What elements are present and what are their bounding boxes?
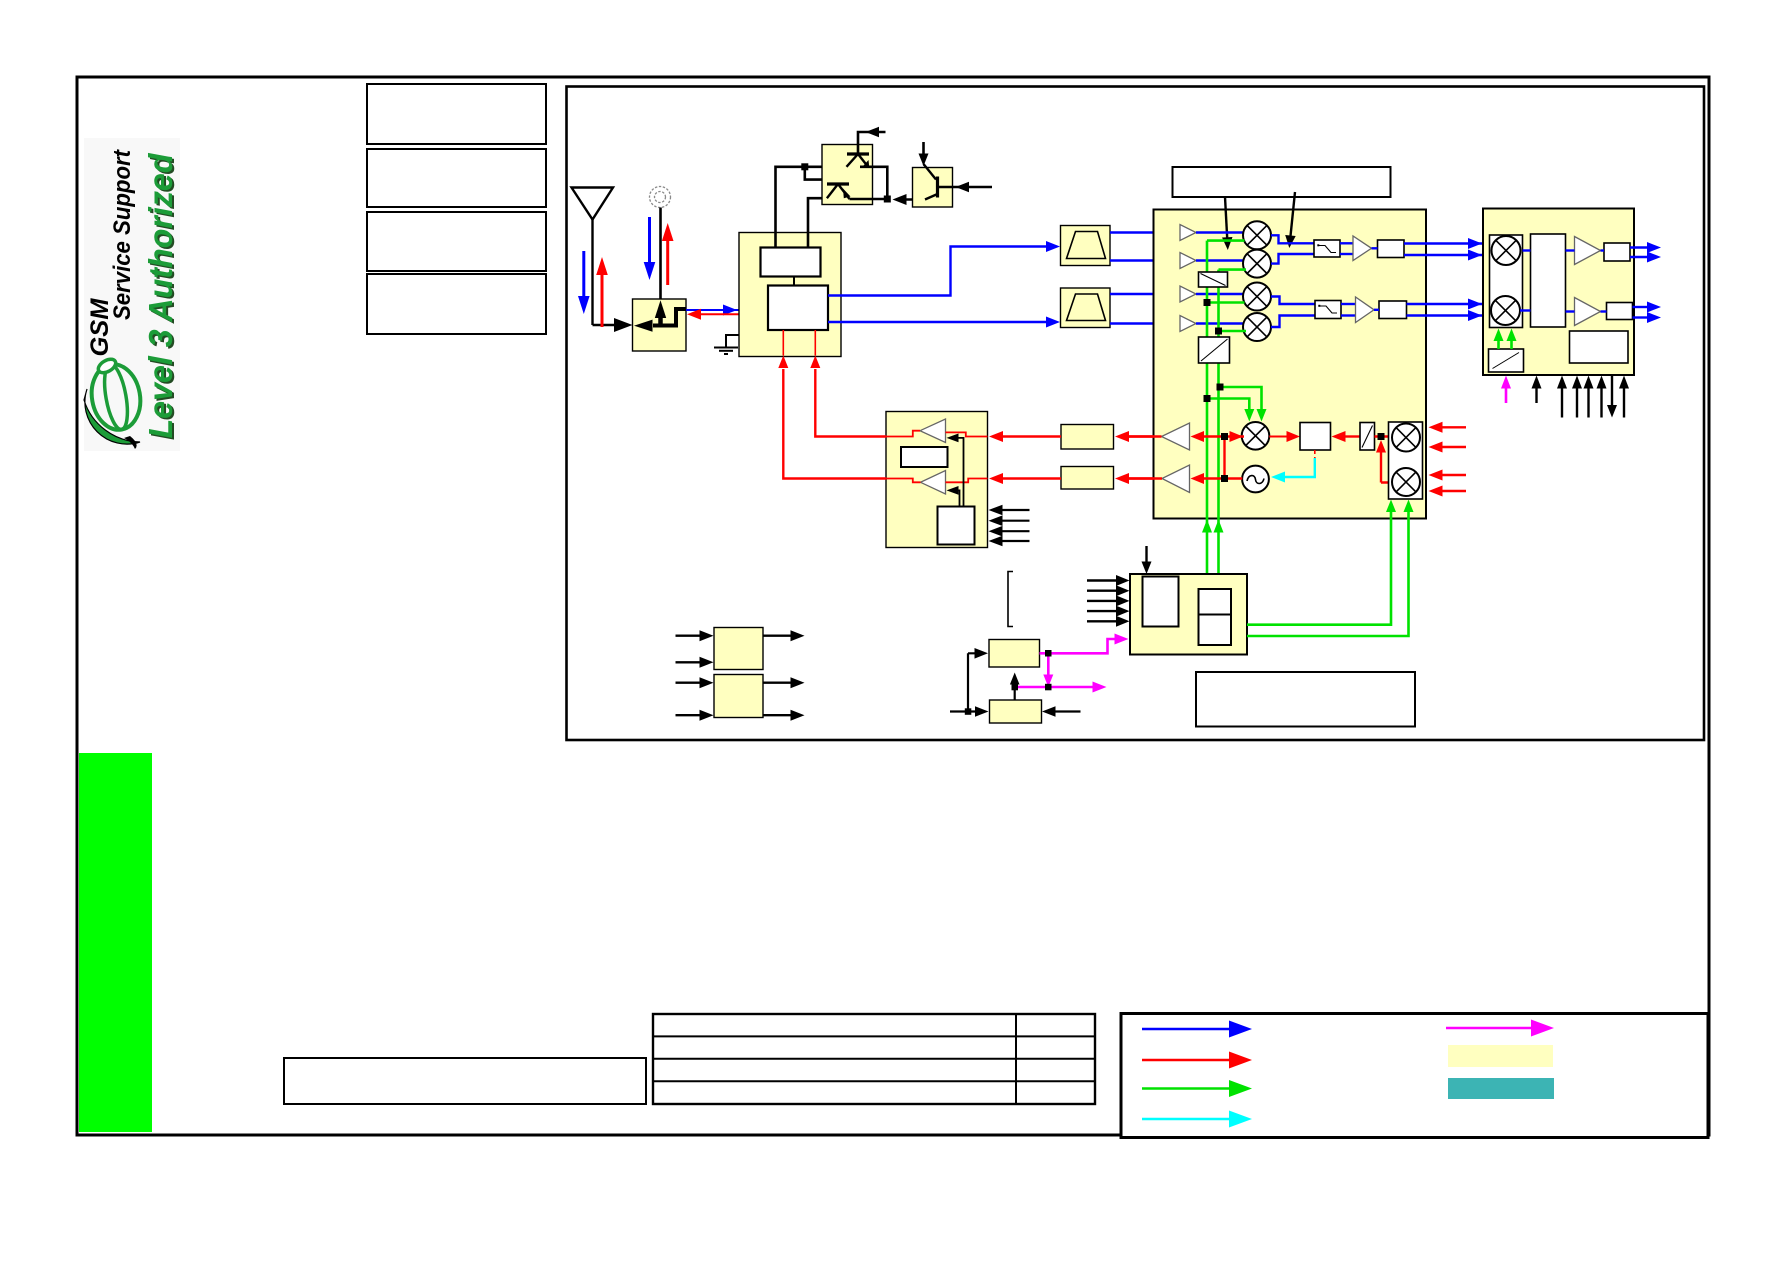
wire Q1a collector to node xyxy=(860,167,887,199)
red wire in to IF amp2 xyxy=(946,479,988,483)
gain control wire amp2 xyxy=(947,486,960,507)
LNA buffer 4 xyxy=(1180,316,1196,332)
Tx red arrow at antenna xyxy=(596,257,608,327)
title block box 2 xyxy=(367,149,546,207)
legend box xyxy=(1121,1014,1708,1138)
wire IC2 mixer2 to filter xyxy=(1520,309,1531,311)
magenta branch down xyxy=(1043,653,1053,687)
output block B2 xyxy=(1379,301,1407,319)
IC2 out block 1 xyxy=(1604,243,1630,261)
IC2 mixer upper xyxy=(1492,236,1521,265)
wire A2 to B2 xyxy=(1374,309,1379,311)
Q2 symbol xyxy=(924,164,938,200)
RX SAW filter FL1 xyxy=(1061,226,1111,266)
wire IC2 mixer1 to filter xyxy=(1523,249,1531,251)
IC2 black interface arrow 3 xyxy=(1572,376,1582,418)
wire junction to Q1b base xyxy=(805,167,839,182)
wire buffer4 to mixer4 xyxy=(1196,322,1244,324)
IC2 mixer lower xyxy=(1491,296,1520,325)
junction TX rail xyxy=(1221,433,1228,440)
wire M5 to modulator box xyxy=(1269,431,1300,442)
IC2 filter block xyxy=(1531,234,1566,327)
lowpass filter LPF1 xyxy=(1314,240,1340,257)
wire PA bias to Q1 collector rail xyxy=(776,167,847,248)
IF control input arrow 4 xyxy=(989,536,1030,547)
output block B1 xyxy=(1378,240,1405,258)
wire A4 out to SAW IF2 xyxy=(1115,473,1162,484)
wire buffer1 to mixer1 xyxy=(1196,231,1244,233)
bottom-left note rect xyxy=(284,1058,646,1104)
mixer M3 xyxy=(1243,283,1271,311)
transistor Q2 xyxy=(913,168,953,208)
synth PLL block lower xyxy=(1199,615,1232,646)
reg2 input arrow 2 xyxy=(676,710,714,721)
title block box 1 xyxy=(367,84,546,144)
IC2 black interface arrow 1 xyxy=(1532,376,1542,404)
IC2 black interface arrow 7 xyxy=(1619,376,1629,418)
junction osc feed xyxy=(965,708,972,715)
legend magenta arrow xyxy=(1446,1020,1554,1037)
arrow into osc B right xyxy=(1042,706,1081,717)
reg1 output arrow xyxy=(763,630,805,641)
switch Tx path arrow (up) xyxy=(655,300,666,325)
IF amp 2 (points left) xyxy=(921,471,946,495)
junction LO-TX B xyxy=(1217,384,1224,391)
red riser from lower TX mixer xyxy=(1376,440,1392,483)
junction magenta C xyxy=(1012,684,1019,691)
wire filter to amp1 xyxy=(1566,249,1575,251)
synth control arrow 4 xyxy=(1087,606,1130,617)
regulator box 2 xyxy=(714,675,763,718)
wire PA bias to Q1b emitter xyxy=(808,198,827,247)
LO rail arrows at IC1 bottom xyxy=(1202,520,1212,533)
VCO oscillator xyxy=(1242,466,1269,493)
LO branch to M3 xyxy=(1207,301,1245,304)
wires LPF1 to amp A1 xyxy=(1340,243,1353,254)
IC2 black interface arrow 5 xyxy=(1597,376,1607,418)
junction magenta A xyxy=(1045,650,1052,657)
wire IC1 to SAW IF1 xyxy=(1129,435,1154,437)
legend blue arrow xyxy=(1142,1021,1252,1038)
TX I/Q mixer box xyxy=(1389,422,1423,499)
wire antenna to switch xyxy=(593,318,633,332)
synth PLL block upper xyxy=(1199,589,1232,615)
TXQN input arrow xyxy=(1429,486,1467,497)
wire buffer2 to mixer2 xyxy=(1196,259,1244,261)
PA module U1 xyxy=(739,233,841,357)
label arrow to mixer 1 xyxy=(1222,197,1233,250)
RF test connector X1 xyxy=(650,187,671,208)
IF control input arrow 3 xyxy=(989,526,1030,537)
arrow into osc A xyxy=(975,648,989,659)
red riser IF to PA left xyxy=(778,330,886,479)
wire Q1b collector to node xyxy=(850,198,885,201)
TX rail red: mixer5 to amp A3 xyxy=(1202,435,1244,437)
wire SAW IF1 to IF block xyxy=(989,431,1061,442)
gain control wire amp1 xyxy=(947,434,964,507)
reg2 input arrow 1 xyxy=(676,677,714,688)
LO rail B (green vertical) xyxy=(1217,270,1220,574)
Q2 collector feed with down arrow xyxy=(919,142,929,166)
junction magenta B xyxy=(1045,684,1052,691)
IC2 amp 2 xyxy=(1575,298,1601,326)
label arrow to mixer 2 xyxy=(1285,192,1296,248)
IF control block xyxy=(938,507,975,545)
LNA buffer 2 xyxy=(1180,253,1196,269)
RXI+ line IC1 to IC2 xyxy=(1404,238,1490,249)
reg1 input arrow 2 xyxy=(676,657,714,668)
reg2 output arrow 1 xyxy=(763,677,805,688)
Rx blue arrow at antenna xyxy=(578,251,590,314)
modulator box xyxy=(1300,423,1331,451)
synthesizer block U3 xyxy=(1130,574,1247,655)
mixer M1 xyxy=(1243,221,1271,249)
black feed wire to osc A/B xyxy=(950,653,976,711)
title block box 4 xyxy=(367,274,546,334)
TX amp A4 (points left) xyxy=(1162,465,1190,493)
IF amplifier block U2 xyxy=(886,412,988,548)
red wire IF amp2 out xyxy=(886,479,921,483)
switch Rx path wire xyxy=(653,309,686,326)
synth control arrow 3 xyxy=(1087,595,1130,606)
TX mixer upper xyxy=(1392,424,1420,452)
magenta clock out line xyxy=(1015,682,1107,693)
wire switch to PA (blue) xyxy=(686,305,768,316)
PA bias block xyxy=(761,248,821,277)
junction LO-M4 xyxy=(1215,328,1222,335)
LO branch A to TX mixer xyxy=(1207,399,1254,422)
VCO rail red to amp A4 xyxy=(1202,477,1242,479)
PA amplifier block xyxy=(768,286,828,331)
synth control arrow 2 xyxy=(1087,585,1130,596)
LNA buffer 1 xyxy=(1180,225,1196,241)
IC2 blue out 1a xyxy=(1630,242,1661,253)
wire A3 out to SAW IF1 xyxy=(1115,431,1162,442)
wire FL2 outputs to IC1 xyxy=(1110,294,1180,324)
synth control arrow 1 xyxy=(1087,575,1130,586)
LO branch to M2 xyxy=(1219,268,1247,271)
IF SAW filter 1 xyxy=(1061,425,1114,450)
wire TX mixers to attenuator xyxy=(1375,435,1392,437)
wire filter to amp2 xyxy=(1566,310,1575,312)
RXI- line IC1 to IC2 xyxy=(1404,250,1490,261)
wire M3 to LPF2 xyxy=(1271,297,1315,305)
magenta clock arrow into IC2 xyxy=(1501,376,1511,404)
Q1a top feed wire xyxy=(858,132,886,154)
osc box B xyxy=(990,700,1042,723)
Q2 base wire with left arrow xyxy=(938,182,993,192)
wire IC1 to SAW IF2 xyxy=(1129,477,1154,479)
arrow into M5 xyxy=(1230,431,1244,442)
transistor pair Q1 xyxy=(822,145,873,205)
magenta clock line to synth xyxy=(1040,634,1129,654)
LNA buffer 3 xyxy=(1180,286,1196,302)
LO rail A (green vertical) xyxy=(1206,241,1209,574)
baseband IC2 xyxy=(1483,209,1634,376)
RXQ+ line IC1 to IC2 xyxy=(1407,299,1491,310)
red vertical junction link xyxy=(1223,437,1225,479)
AFC dashed red stub xyxy=(1314,450,1316,459)
RX SAW filter FL2 xyxy=(1061,288,1111,328)
IC2 blue out 2a xyxy=(1633,302,1662,313)
arrow Q2 emitter into node xyxy=(893,194,926,205)
wires LPF2 to amp A2 xyxy=(1341,304,1356,316)
red wire IF amp1 out xyxy=(886,431,920,437)
phase shifter PS2 xyxy=(1199,337,1230,363)
IC2 mixer column box xyxy=(1490,235,1523,328)
wire attenuator to modulator xyxy=(1332,431,1361,442)
Q1b collector arrow xyxy=(843,189,851,199)
legend yellow swatch xyxy=(1448,1045,1553,1067)
IC2 black interface arrow 6 (down) xyxy=(1607,376,1617,418)
wire FL1 outputs to IC1 xyxy=(1110,233,1180,261)
IF control input arrow 2 xyxy=(989,515,1030,526)
reference osc box A xyxy=(989,640,1040,668)
wire M1 to LPF1 xyxy=(1271,235,1314,243)
TXIP input arrow xyxy=(1429,422,1467,433)
IF control input arrow 1 xyxy=(989,505,1030,516)
bracket symbol xyxy=(1008,572,1013,627)
junction VCO rail xyxy=(1221,475,1228,482)
green TX LO feed 1 xyxy=(1247,500,1396,625)
AFC cyan line to VCO xyxy=(1271,458,1315,483)
TX mixer M5 xyxy=(1242,422,1270,450)
junction node Q1/Q2 xyxy=(884,196,891,203)
IC2 black interface arrow 2 xyxy=(1557,376,1567,418)
green cal arrow 1 xyxy=(1494,329,1504,350)
LO branch to M1 xyxy=(1207,239,1245,242)
reg2 output arrow 2 xyxy=(763,710,805,721)
IF SAW filter 2 xyxy=(1061,467,1114,490)
LO branch to M4 xyxy=(1219,330,1247,333)
reg1 input arrow 1 xyxy=(676,630,714,641)
wire A1 to B1 xyxy=(1372,247,1378,249)
TX mixer lower xyxy=(1392,468,1420,496)
mixer M4 xyxy=(1243,313,1271,341)
wire amp1 to out block xyxy=(1601,249,1605,251)
arrow osc B to magenta node xyxy=(1010,673,1020,701)
wire M4 to LPF2 xyxy=(1271,316,1315,328)
LO branch B to TX mixer xyxy=(1220,387,1267,422)
svg-text:Level 3 Authorized: Level 3 Authorized xyxy=(142,153,179,439)
amplifier A1 xyxy=(1353,236,1372,261)
regulator box 1 xyxy=(714,628,763,670)
arrow into A3 xyxy=(1191,431,1205,442)
TX amp A3 (points left) xyxy=(1162,423,1190,450)
IC2 blue out 1b xyxy=(1630,252,1661,263)
Tx red arrow at connector xyxy=(662,223,674,285)
IC2 black interface arrow 4 xyxy=(1584,376,1594,418)
junction LO-TX A xyxy=(1204,395,1211,402)
synth divider block xyxy=(1143,577,1179,627)
wire amp2 to out block xyxy=(1601,310,1607,312)
green cal arrow 2 xyxy=(1507,329,1517,350)
Q1b transistor xyxy=(827,184,850,199)
synth control arrow 5 xyxy=(1087,616,1130,627)
green side bar xyxy=(79,753,152,1132)
switch Rx arrow (left) xyxy=(634,320,653,332)
Rx blue arrow at connector xyxy=(644,217,656,280)
arrow into osc B left xyxy=(975,706,989,717)
IF gain block xyxy=(901,447,948,467)
legend red arrow xyxy=(1142,1052,1252,1069)
amplifier A2 xyxy=(1356,297,1375,323)
IC2 cal block xyxy=(1489,349,1524,372)
junction LO-M3 xyxy=(1204,299,1211,306)
lowpass filter LPF2 xyxy=(1315,301,1341,319)
arrow into A4 xyxy=(1191,473,1205,484)
Q1a transistor xyxy=(847,154,870,167)
mixer M2 xyxy=(1243,250,1271,278)
RF transceiver IC1 xyxy=(1154,210,1427,519)
revision table xyxy=(653,1014,1095,1104)
wire connector to switch xyxy=(659,208,662,301)
IC1 label box xyxy=(1173,167,1391,197)
svg-text:Service Support: Service Support xyxy=(109,149,136,320)
wire bias to amp xyxy=(793,277,795,286)
GSM logo globe xyxy=(84,356,145,449)
antenna ANT1 xyxy=(572,188,614,326)
green TX LO feed 2 xyxy=(1247,500,1414,637)
IC2 label rect xyxy=(1570,331,1629,363)
title block box 3 xyxy=(367,212,546,271)
IC2 out block 2 xyxy=(1607,303,1633,320)
legend teal swatch xyxy=(1448,1078,1554,1099)
red riser IF to PA right xyxy=(810,330,886,437)
wire PA to switch (red) xyxy=(687,309,768,320)
page outer border xyxy=(77,77,1709,1135)
phase shifter PS1 xyxy=(1199,272,1228,287)
legend green arrow xyxy=(1142,1080,1252,1097)
IF amp 1 (points left) xyxy=(920,419,946,443)
IC2 blue out 2b xyxy=(1633,312,1662,323)
arrow on Q1a top feed xyxy=(866,127,880,137)
TXIN input arrow xyxy=(1429,442,1467,453)
RXQ- line IC1 to IC2 xyxy=(1407,310,1491,321)
Q1a emitter arrow xyxy=(862,160,870,168)
junction TX IQ node xyxy=(1378,433,1385,440)
antenna switch S1 xyxy=(633,299,687,351)
legend cyan arrow xyxy=(1142,1111,1252,1128)
junction on collector rail xyxy=(801,163,808,170)
wire M2 to LPF1 xyxy=(1271,254,1314,264)
GSM logo background xyxy=(84,138,180,451)
schematic bottom-right label rect xyxy=(1196,672,1415,727)
TXQP input arrow xyxy=(1429,470,1467,481)
ground at PA xyxy=(714,335,739,354)
wire PA to RX SAW 1 (blue) xyxy=(828,241,1060,296)
IC2 amp 1 xyxy=(1575,237,1601,265)
wire PA to RX SAW 2 (blue) xyxy=(828,317,1060,328)
red wire in to IF amp1 xyxy=(946,432,988,436)
attenuator box xyxy=(1360,423,1375,451)
schematic frame xyxy=(567,87,1705,741)
wire buffer3 to mixer3 xyxy=(1196,293,1244,295)
wire SAW IF2 to IF block xyxy=(989,473,1061,484)
arrow into synth top xyxy=(1142,546,1152,574)
